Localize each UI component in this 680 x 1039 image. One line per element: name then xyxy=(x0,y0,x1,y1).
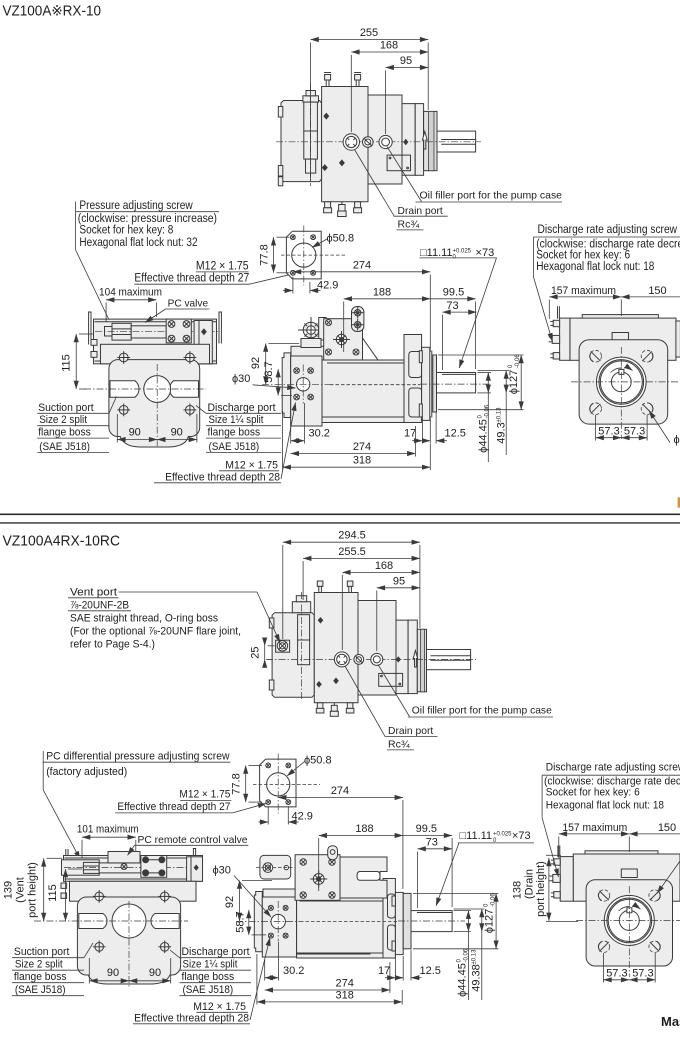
svg-text:Mas: Mas xyxy=(661,1014,680,1029)
dimension 58.7 (top side view) xyxy=(277,369,279,396)
svg-text:73: 73 xyxy=(426,836,438,848)
b-plan: mounting flange xyxy=(408,620,417,694)
b-rear: corner slots xyxy=(598,890,609,901)
b-side: mounting flange plate xyxy=(395,892,403,954)
b-plan: plug circle xyxy=(354,655,364,665)
svg-text:(SAE J518): (SAE J518) xyxy=(209,441,260,453)
front view: bottom skirt xyxy=(120,436,189,447)
svg-text:157 maximum: 157 maximum xyxy=(551,285,616,297)
svg-text:90: 90 xyxy=(171,427,183,439)
b-plan: valve screw body xyxy=(298,615,310,665)
plan view: rotation arrow xyxy=(422,132,427,150)
svg-text:95: 95 xyxy=(400,55,412,67)
svg-text:90: 90 xyxy=(129,427,141,439)
rear view: rotation arrow xyxy=(611,368,623,373)
svg-text:+0.025: +0.025 xyxy=(493,832,512,838)
svg-text:(Drain: (Drain xyxy=(524,869,536,899)
b-side: rear raised box xyxy=(383,879,395,959)
b-rear: rotation arrow xyxy=(619,906,631,911)
rear view: housing xyxy=(579,340,668,424)
b-plan: valve centerline xyxy=(301,592,303,700)
b-side: centerline xyxy=(236,921,300,923)
side view: rear raised box xyxy=(404,335,422,423)
rear view: valve left bolts xyxy=(549,320,559,359)
b-side: port bolt holes xyxy=(268,905,288,938)
flange detail square xyxy=(286,231,321,279)
svg-text:□11.11: □11.11 xyxy=(420,247,453,259)
svg-text:-0.06: -0.06 xyxy=(515,354,521,368)
side view: step block xyxy=(291,346,325,365)
b-side: port plate xyxy=(254,892,262,952)
label drain port (bottom) xyxy=(345,666,385,736)
svg-text:58.7: 58.7 xyxy=(235,911,247,932)
side view: valve top capsule xyxy=(352,307,364,332)
svg-text:Drain port: Drain port xyxy=(388,725,433,737)
dimension 17 (top side view) xyxy=(421,416,423,444)
svg-text:30.2: 30.2 xyxy=(283,965,304,977)
front view: valve centerline xyxy=(95,331,218,333)
plan view: orientation diamonds xyxy=(323,113,329,120)
dimension 318 (top side view bottom) xyxy=(283,466,431,468)
dimension 168 (top plan) xyxy=(351,51,428,53)
b-front: main bore xyxy=(112,904,146,938)
svg-text:Hexagonal flat lock nut: 32: Hexagonal flat lock nut: 32 xyxy=(79,235,197,249)
dimension 17 (b-side) xyxy=(394,956,396,981)
svg-text:Size 1¼ split: Size 1¼ split xyxy=(183,959,238,971)
side view: port face block xyxy=(291,356,322,426)
side view: shaft xyxy=(437,373,476,393)
side view: valve bolted block xyxy=(324,319,363,360)
svg-text:150: 150 xyxy=(658,822,676,834)
svg-text:ϕ127: ϕ127 xyxy=(484,909,496,934)
b-front: valve inner block xyxy=(141,856,167,878)
svg-text:25: 25 xyxy=(250,646,262,658)
dimension 99.5 (b-side) xyxy=(403,835,452,837)
svg-text:-0.06: -0.06 xyxy=(485,404,491,418)
svg-text:port height): port height) xyxy=(27,862,39,918)
svg-text:Socket for hex key: 6: Socket for hex key: 6 xyxy=(546,786,640,798)
svg-text:ϕ44.45: ϕ44.45 xyxy=(457,963,469,997)
svg-text:×73: ×73 xyxy=(473,247,495,259)
svg-text:Suction port: Suction port xyxy=(38,402,93,414)
b-plan: rotation arrow xyxy=(413,651,417,668)
leader top-right bolt (b-rear) xyxy=(657,861,680,894)
dimension 73 (b-side) xyxy=(418,848,453,850)
b-side: spigot edge xyxy=(403,893,411,948)
svg-text:PC remote control valve: PC remote control valve xyxy=(138,834,248,846)
plan view: shaft xyxy=(437,131,476,152)
b-plan: valve top caps xyxy=(292,602,310,613)
svg-text:255: 255 xyxy=(360,27,378,39)
svg-text:12.5: 12.5 xyxy=(445,428,466,440)
svg-text:115: 115 xyxy=(61,354,73,372)
b-side: PC remote cylinder xyxy=(260,855,291,879)
b-rear: big circles xyxy=(604,895,654,945)
svg-text:318: 318 xyxy=(336,989,354,1001)
leader phi bolt hole (top rear) xyxy=(649,411,670,443)
svg-text:57.3: 57.3 xyxy=(606,967,627,979)
svg-text:flange boss: flange boss xyxy=(182,971,235,983)
front view: side slots xyxy=(110,381,139,397)
dimension 139 vent port height (b-front) xyxy=(43,858,45,921)
front view: main bore circle xyxy=(144,376,171,403)
svg-text:⅞-20UNF-2B: ⅞-20UNF-2B xyxy=(70,599,129,611)
svg-text:12.5: 12.5 xyxy=(420,965,441,977)
b-rear: shaft key square xyxy=(627,908,632,913)
front view: body band xyxy=(101,344,210,364)
b-front: valve centerline xyxy=(64,867,201,869)
plan view: valve centerline xyxy=(309,83,311,186)
rear view: corner slot bottom-left xyxy=(590,403,602,415)
svg-text:Discharge port: Discharge port xyxy=(208,402,276,414)
svg-text:168: 168 xyxy=(375,560,393,572)
b-plan: vent port boss xyxy=(276,640,290,652)
svg-text:274: 274 xyxy=(336,978,354,990)
svg-text:flange boss: flange boss xyxy=(38,427,91,439)
b-side: body upper extension xyxy=(338,857,387,898)
svg-text:M12 × 1.75: M12 × 1.75 xyxy=(225,459,278,471)
svg-text:ϕ30: ϕ30 xyxy=(213,865,231,877)
side view: port plate xyxy=(282,353,291,418)
svg-text:73: 73 xyxy=(446,300,458,312)
svg-text:57.3: 57.3 xyxy=(624,425,645,437)
dimension 92 (b-side) xyxy=(239,881,241,922)
b-plan: valve left tabs xyxy=(269,618,274,628)
svg-text:refer to Page S-4.): refer to Page S-4.) xyxy=(70,638,155,650)
svg-text:Effective thread depth 28: Effective thread depth 28 xyxy=(165,471,280,483)
svg-text:ϕ44.45: ϕ44.45 xyxy=(478,419,490,453)
svg-text:138: 138 xyxy=(512,881,524,899)
b-front: body band xyxy=(70,881,197,901)
front view: nameplate marks xyxy=(134,347,145,351)
rear view: main block xyxy=(570,318,676,360)
b-plan: bearing disc xyxy=(417,629,426,692)
svg-text:Oil filler port for the pump c: Oil filler port for the pump case xyxy=(412,705,552,717)
b-side: main body xyxy=(297,898,388,958)
b-plan: nameplate xyxy=(379,673,403,686)
svg-text:Rc¾: Rc¾ xyxy=(388,739,410,751)
flange detail centerlines xyxy=(303,226,305,286)
plan view: valve block xyxy=(281,101,322,182)
svg-text:Discharge rate adjusting screw: Discharge rate adjusting screw xyxy=(546,762,680,774)
b-front: left bolt heads xyxy=(61,883,67,888)
b-plan: bottom studs xyxy=(316,703,324,713)
flange detail bore circle xyxy=(292,243,316,267)
side view: discharge port circle xyxy=(297,378,310,391)
b-front: housing xyxy=(77,897,180,975)
front view: centerlines xyxy=(84,388,206,390)
rear view: big circles xyxy=(597,357,647,407)
dimension 57.3 57.3 (top rear) xyxy=(596,437,622,439)
svg-text:-0.06: -0.06 xyxy=(464,948,470,962)
svg-text:274: 274 xyxy=(353,441,371,453)
b-front: corner bolts xyxy=(93,891,170,953)
rear view: corner slot top-right xyxy=(641,350,653,362)
dimension 30.2 (b-side) xyxy=(264,960,266,981)
dimension phi127 (top side view) xyxy=(438,354,524,356)
dimension 30.2 (top side view) xyxy=(290,420,292,444)
dimension 49.3 (top side view) xyxy=(478,370,510,372)
svg-text:104 maximum: 104 maximum xyxy=(99,287,162,299)
b-plan: valve block xyxy=(272,613,314,698)
svg-text:92: 92 xyxy=(250,357,262,369)
front view: valve block xyxy=(94,319,217,364)
plan view: valve inner screw body xyxy=(303,96,319,102)
rear view: top plate xyxy=(582,315,658,319)
svg-text:58.7: 58.7 xyxy=(263,361,275,382)
dimension 92 (top side view) xyxy=(265,343,267,384)
plan view: drain port circle xyxy=(343,134,359,150)
front view: right long stud xyxy=(218,312,220,343)
svg-text:17: 17 xyxy=(404,428,416,440)
front view: left bolt heads xyxy=(91,340,97,346)
dimension 188 (b-side) xyxy=(319,835,403,837)
rear view: corner slot top-left xyxy=(590,350,602,362)
dimension 42.9 (top) xyxy=(292,277,294,294)
plan view: nameplate xyxy=(387,155,410,171)
rear view: shaft key square xyxy=(619,369,624,374)
b-rear: centerlines xyxy=(576,919,680,921)
svg-text:□11.11: □11.11 xyxy=(460,830,493,842)
svg-text:101 maximum: 101 maximum xyxy=(77,824,139,836)
svg-text:×73: ×73 xyxy=(512,830,531,842)
svg-text:(SAE J518): (SAE J518) xyxy=(183,984,234,996)
svg-text:49.3: 49.3 xyxy=(496,422,508,443)
dimension 138 drain port height (b-rear) xyxy=(548,858,550,921)
rear view: filler neck xyxy=(612,333,628,341)
rear view: valve block xyxy=(560,318,570,360)
side view: main body xyxy=(322,360,405,423)
dimension 294.5 (b-plan) xyxy=(283,541,420,543)
svg-text:(SAE J518): (SAE J518) xyxy=(15,984,66,996)
plan view: mounting flange xyxy=(415,104,423,176)
svg-text:Discharge port: Discharge port xyxy=(182,946,250,958)
svg-text:Size 2 split: Size 2 split xyxy=(15,959,63,971)
svg-text:(factory adjusted): (factory adjusted) xyxy=(46,766,127,778)
b-side: body bottom line xyxy=(297,953,370,955)
side view: pc valve serrated knob xyxy=(303,322,319,338)
svg-text:Size 1¼ split: Size 1¼ split xyxy=(209,414,264,426)
svg-text:Effective thread depth 28: Effective thread depth 28 xyxy=(134,1012,249,1024)
svg-text:139: 139 xyxy=(3,881,15,899)
svg-text:77.8: 77.8 xyxy=(231,773,243,794)
svg-text:flange boss: flange boss xyxy=(14,971,67,983)
svg-text:255.5: 255.5 xyxy=(338,546,366,558)
dimension 274 (b-side bottom) xyxy=(265,989,390,991)
svg-text:49.38: 49.38 xyxy=(471,964,483,992)
svg-text:42.9: 42.9 xyxy=(317,280,338,292)
svg-text:Suction port: Suction port xyxy=(14,946,70,958)
svg-text:(Vent: (Vent xyxy=(15,877,27,903)
b-rear: top plate xyxy=(585,851,658,855)
label: drain port (top) xyxy=(355,150,395,217)
svg-text:188: 188 xyxy=(355,823,373,835)
svg-text:95: 95 xyxy=(393,575,405,587)
b-rear: housing xyxy=(586,880,672,966)
b-plan: oil filler circle xyxy=(371,653,383,665)
svg-text:Rc¾: Rc¾ xyxy=(398,219,420,231)
svg-text:168: 168 xyxy=(380,40,398,52)
plan view: oil filler circle xyxy=(379,135,392,148)
svg-text:(For the optional ⅞-20UNF flar: (For the optional ⅞-20UNF flare joint, xyxy=(70,625,241,637)
svg-text:M12 × 1.75: M12 × 1.75 xyxy=(179,789,230,801)
svg-text:157 maximum: 157 maximum xyxy=(562,822,627,834)
dimension 42.9 (bottom) xyxy=(267,806,269,825)
svg-text:Discharge rate adjusting screw: Discharge rate adjusting screw xyxy=(538,222,678,236)
svg-text:274: 274 xyxy=(331,785,349,797)
plan view: main body xyxy=(322,87,416,202)
b-plan: drain circle xyxy=(334,652,349,667)
svg-text:274: 274 xyxy=(353,259,371,271)
svg-text:92: 92 xyxy=(224,896,236,908)
svg-text:17: 17 xyxy=(378,965,390,977)
svg-text:M12 × 1.75: M12 × 1.75 xyxy=(193,1001,246,1013)
dimension 115 (top front) xyxy=(75,334,77,389)
dimension 58.7 (b-side) xyxy=(248,910,250,935)
front view: pressure screw hex xyxy=(105,327,113,337)
dimension 168 (b-plan) xyxy=(342,571,420,573)
dimension 274 (bottom upper) xyxy=(278,797,403,799)
svg-text:PC differential pressure adjus: PC differential pressure adjusting screw xyxy=(46,751,229,763)
dimension 25 (b-plan vent) xyxy=(264,646,266,660)
svg-text:90: 90 xyxy=(149,967,161,979)
b-plan: main body xyxy=(314,593,408,703)
divider double rule xyxy=(0,513,680,515)
dimension 49.38 (b-side) xyxy=(454,908,485,910)
svg-text:±0.13: ±0.13 xyxy=(472,949,478,965)
dimension 90 90 (top front) xyxy=(117,439,157,441)
svg-text:Effective thread depth 27: Effective thread depth 27 xyxy=(117,801,230,813)
dimension 12.5 (top side view) xyxy=(429,416,431,444)
b-rear: valve block xyxy=(560,857,573,902)
plan view: valve left tabs xyxy=(278,107,283,118)
b-plan: center line xyxy=(266,658,476,660)
b-rear: valve left bolts xyxy=(550,859,560,898)
b-side: valve square xyxy=(295,855,340,901)
svg-text:Hexagonal flat lock nut: 18: Hexagonal flat lock nut: 18 xyxy=(536,259,654,273)
label oil filler port (bottom) xyxy=(378,665,410,717)
orange page tab xyxy=(678,497,680,507)
dimension 73 (top side view) xyxy=(442,311,476,313)
dimension 188 (top side view) xyxy=(344,298,431,300)
svg-text:Drain port: Drain port xyxy=(398,205,443,217)
b-side: shaft xyxy=(411,911,452,932)
plan view: plug circle xyxy=(363,137,374,148)
b-plan: shaft xyxy=(427,650,471,670)
b-side: valve top capsule xyxy=(328,846,338,860)
dimension 318 (b-side bottom) xyxy=(257,1001,402,1003)
svg-text:VZ100A4RX-10RC: VZ100A4RX-10RC xyxy=(3,534,121,550)
dimension 274 (top side view bottom) xyxy=(291,453,416,455)
svg-text:77.8: 77.8 xyxy=(259,244,271,265)
svg-text:30.2: 30.2 xyxy=(309,428,330,440)
dimension phi44.45 (b-side) xyxy=(454,910,472,912)
b-rear: main block xyxy=(573,854,680,901)
svg-text:150: 150 xyxy=(648,285,666,297)
plan view: top studs xyxy=(325,73,331,87)
label: oil filler port (top) xyxy=(387,147,422,202)
dimension 99.5 (top side view) xyxy=(430,298,475,300)
svg-text:57.3: 57.3 xyxy=(632,967,653,979)
front view: valve inner block xyxy=(166,319,191,343)
b-front: diamond xyxy=(194,865,199,871)
b-front: bottom skirt xyxy=(88,975,170,985)
dimension 90 90 (b-front) xyxy=(89,980,129,982)
svg-text:Effective thread depth 27: Effective thread depth 27 xyxy=(134,271,249,285)
svg-text:Oil filler port for the pump c: Oil filler port for the pump case xyxy=(420,190,563,202)
b-front: left remote control part xyxy=(62,860,100,875)
svg-text:90: 90 xyxy=(107,967,119,979)
side view: port bolt holes xyxy=(294,368,314,400)
svg-text:188: 188 xyxy=(373,286,391,298)
front view: right diamond xyxy=(201,328,207,335)
svg-text:ϕ17: ϕ17 xyxy=(674,434,680,446)
dimension 95 (b-plan) xyxy=(377,587,420,589)
svg-text:99.5: 99.5 xyxy=(443,286,464,298)
b-front: valve block xyxy=(64,856,203,882)
side view: mounting flange plate xyxy=(422,347,430,420)
dimension phi127 (b-side) xyxy=(413,892,499,894)
svg-text:294.5: 294.5 xyxy=(338,530,366,542)
b-front: valve right block xyxy=(187,857,203,882)
svg-text:PC valve: PC valve xyxy=(168,298,209,310)
svg-text:(SAE J518): (SAE J518) xyxy=(39,441,90,453)
dimension 255 (top plan) xyxy=(311,39,429,41)
b-plan: diamonds xyxy=(318,617,324,624)
svg-text:57.3: 57.3 xyxy=(598,425,619,437)
b-plan: top studs xyxy=(317,581,323,593)
rear view: centerlines xyxy=(571,381,680,383)
b-rear: filler neck xyxy=(621,869,637,878)
plan view: bottom studs xyxy=(324,202,332,213)
dimension phi44.45 (top side view) xyxy=(478,372,492,374)
svg-text:42.9: 42.9 xyxy=(292,811,313,823)
svg-text:SAE straight thread, O-ring bo: SAE straight thread, O-ring boss xyxy=(70,612,218,624)
svg-text:ϕ50.8: ϕ50.8 xyxy=(327,233,355,245)
plan view: bearing disc xyxy=(424,111,437,170)
b-side: step block xyxy=(263,889,296,901)
svg-text:±0.13: ±0.13 xyxy=(497,407,503,423)
side view: spigot edge xyxy=(431,351,433,417)
svg-text:VZ100A※RX-10: VZ100A※RX-10 xyxy=(3,4,102,20)
side view: rear cylinders xyxy=(409,352,422,378)
front view: corner bolts xyxy=(118,352,196,416)
side view: valve-body wedge xyxy=(363,338,379,360)
b-side: port face block xyxy=(262,897,296,957)
front view: left long stud xyxy=(88,312,90,344)
rear view: corner slot bottom-right xyxy=(641,403,653,415)
centerline through port (top side view) xyxy=(262,384,330,386)
svg-text:ϕ30: ϕ30 xyxy=(232,373,250,385)
dimension 77.8 (top) xyxy=(273,237,275,273)
b-front: side slots xyxy=(79,914,107,929)
dimension 115 (b-front) xyxy=(65,869,67,921)
svg-text:115: 115 xyxy=(47,884,59,902)
dimension 255.5 (b-plan) xyxy=(303,557,420,559)
b-front: nameplates xyxy=(109,888,120,892)
svg-text:Hexagonal flat lock nut: 18: Hexagonal flat lock nut: 18 xyxy=(546,799,664,811)
plan view: center line xyxy=(276,141,481,143)
svg-text:Vent port: Vent port xyxy=(70,586,117,598)
front view: valve right block xyxy=(194,321,212,364)
svg-text:99.5: 99.5 xyxy=(416,823,437,835)
dimension 57.3 57.3 (b-rear) xyxy=(603,979,629,981)
dimension 95 (top plan) xyxy=(386,67,429,69)
svg-text:port height): port height) xyxy=(535,861,547,917)
b-front: centerlines xyxy=(34,920,188,922)
dimension 274 (top upper) xyxy=(293,271,430,273)
front view: housing xyxy=(109,360,200,437)
